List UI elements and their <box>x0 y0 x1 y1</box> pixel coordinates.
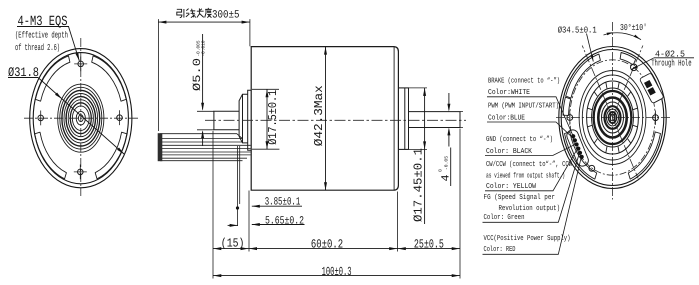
svg-text:of thread 2.6): of thread 2.6) <box>15 43 60 53</box>
left view slot bottom-left <box>35 132 67 179</box>
rear slot left <box>563 97 571 115</box>
rear view centerlines <box>556 22 672 200</box>
label CW/CCW <box>485 148 578 191</box>
svg-text:Ø34.5±0.1: Ø34.5±0.1 <box>558 26 597 36</box>
rear bolt circle Ø34.5 (dash-dot) <box>570 60 655 175</box>
front pilot ring Ø17.5 <box>248 90 252 150</box>
rear spokes <box>588 82 638 153</box>
svg-text:-0.010: -0.010 <box>200 40 206 56</box>
left view M3 hole left <box>38 111 44 126</box>
svg-text:Color: RED: Color: RED <box>484 245 516 254</box>
dimension 25±0.5 <box>398 237 461 251</box>
dimension 60±0.2 <box>249 237 398 251</box>
front shaft Ø5 <box>214 111 239 130</box>
left view M3 hole top <box>74 57 87 72</box>
svg-text:Color:BLUE: Color:BLUE <box>488 113 525 122</box>
rear hole right <box>653 111 659 125</box>
svg-text:3.85±0.1: 3.85±0.1 <box>265 197 301 209</box>
label BRAKE <box>487 76 573 135</box>
label 4-Ø2.5 Through Hole <box>630 50 694 71</box>
lead wires bundle <box>160 134 251 161</box>
rear view second circle <box>561 50 664 186</box>
left view hub rings (Ø31.8 boss) <box>58 84 104 152</box>
rear slot bottom-left <box>565 132 597 179</box>
left view slot top-left <box>35 56 70 101</box>
svg-text:Through Hole: Through Hole <box>651 58 691 68</box>
label Ø31.8 <box>8 65 39 80</box>
dimension 3.85±0.1 <box>236 146 302 226</box>
svg-text:Ø17.5±0.1: Ø17.5±0.1 <box>266 90 280 145</box>
dimension 100±0.3 <box>213 265 460 279</box>
dimension 5.65±0.2 <box>228 215 305 227</box>
left view outer circle <box>30 49 132 188</box>
leader Ø31.8 diameter line <box>38 78 125 156</box>
rear slot top-right short <box>620 53 636 66</box>
leader 4-M3 to top hole <box>69 27 81 62</box>
svg-text:4-M3 EQS: 4-M3 EQS <box>18 14 68 30</box>
rear wire connector (black dots) <box>565 128 590 168</box>
svg-text:Color: BLACK: Color: BLACK <box>486 147 532 156</box>
rear view outer circle <box>559 47 666 189</box>
svg-text:(Effective depth: (Effective depth <box>15 30 68 40</box>
rear boss Ø17.45 <box>398 88 408 149</box>
label GND <box>485 135 576 156</box>
left view horizontal centerline <box>24 117 138 119</box>
svg-text:(15): (15) <box>221 237 245 251</box>
front boss trapezoid <box>239 94 248 143</box>
svg-text:Ø5.0: Ø5.0 <box>192 58 204 91</box>
rear hole top-right 30° <box>631 64 638 71</box>
svg-text:PWM (PWM INPUT/START): PWM (PWM INPUT/START) <box>488 102 559 111</box>
svg-text:VCC(Positive Power Supply): VCC(Positive Power Supply) <box>484 234 571 243</box>
svg-text:Color:WHITE: Color:WHITE <box>488 88 530 97</box>
svg-text:60±0.2: 60±0.2 <box>311 237 343 251</box>
svg-text:Ø17.45±0.1: Ø17.45±0.1 <box>412 148 426 222</box>
dimension Ø17.5±0.1 (rotated) <box>252 89 280 149</box>
label PWM <box>487 102 575 140</box>
dimension (15) <box>213 237 249 251</box>
wire break hatch <box>158 133 163 161</box>
rear slot top-left <box>566 54 601 98</box>
svg-text:4: 4 <box>441 174 453 181</box>
svg-text:5.65±0.2: 5.65±0.2 <box>265 215 304 227</box>
motor body outline <box>251 47 398 191</box>
svg-text:BRAKE (connect to “-”): BRAKE (connect to “-”) <box>488 76 560 85</box>
svg-text:300±5: 300±5 <box>212 9 240 21</box>
svg-text:-0.05: -0.05 <box>444 156 450 170</box>
dimension Ø5.0 -0.005/-0.010 (rotated) <box>192 34 214 146</box>
svg-text:Color: Green: Color: Green <box>484 213 525 222</box>
rear shaft stub <box>409 112 461 128</box>
rear hole left <box>567 110 573 124</box>
rear terminal connector top-right <box>639 73 664 104</box>
rear slot bottom-right <box>628 132 660 179</box>
svg-text:GND (connect to “-”): GND (connect to “-”) <box>486 135 553 144</box>
rear center shaft slot <box>611 113 615 123</box>
svg-text:CW/CCW (connect to“-”, CCW: CW/CCW (connect to“-”, CCW <box>486 160 572 169</box>
dimension Ø17.45±0.1 (rotated) <box>398 88 427 224</box>
dimension Ø34.5±0.1 <box>558 26 597 62</box>
rear rosette rings <box>579 71 646 165</box>
svg-text:30°±10': 30°±10' <box>620 23 647 33</box>
svg-text:100±0.3: 100±0.3 <box>322 265 352 279</box>
left view vertical centerline <box>80 38 82 196</box>
svg-text:FG (Speed Signal per: FG (Speed Signal per <box>484 193 556 202</box>
left view slot top-right <box>92 56 127 101</box>
rear cover seam line <box>393 47 395 191</box>
svg-text:Revolution output): Revolution output) <box>499 204 561 213</box>
label FG <box>483 153 580 223</box>
left view second circle <box>33 53 128 184</box>
label 4-M3 EQS <box>17 14 69 30</box>
svg-text:0: 0 <box>438 169 444 172</box>
svg-text:Ø42.3Max: Ø42.3Max <box>312 85 326 146</box>
bottom extension lines <box>213 129 460 279</box>
left view slot bottom-right <box>95 132 127 179</box>
svg-text:25±0.5: 25±0.5 <box>414 237 444 251</box>
rear hole bottom-left 30° <box>589 165 595 171</box>
label VCC <box>483 157 582 255</box>
svg-text:as viewed from output shaft.): as viewed from output shaft.) <box>486 171 565 180</box>
dimension 30°±10' <box>604 23 648 41</box>
dimension 4 0/-0.05 (rotated) <box>438 93 464 186</box>
side view centerline <box>205 119 466 121</box>
label (Effective depth of thread 2.6) <box>15 30 68 53</box>
dimension Ø42.3Max (rotated) <box>312 47 327 191</box>
left view M3 hole bottom <box>74 165 87 180</box>
dimension text 引线长度300±5 (CJK drawn as strokes) <box>177 8 212 18</box>
left view M3 hole right <box>117 110 123 125</box>
svg-text:Color: YELLOW: Color: YELLOW <box>486 182 536 191</box>
wire length dimension 引线长度300±5 <box>158 19 250 131</box>
